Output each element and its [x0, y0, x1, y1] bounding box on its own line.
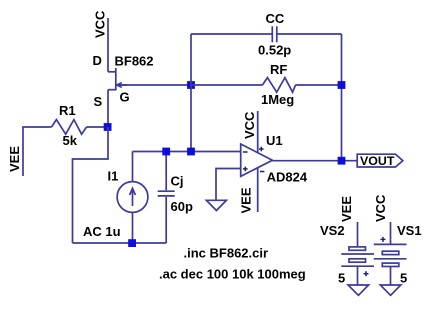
- wire bottom rail: [73, 242, 167, 244]
- node RF right junction: [338, 81, 346, 89]
- wire VS1 bottom: [390, 267, 392, 286]
- node I1 bottom junction: [128, 239, 136, 247]
- wire op-amp output: [272, 160, 357, 162]
- svg-text:VEE: VEE: [7, 146, 22, 172]
- svg-text:AC 1u: AC 1u: [83, 224, 121, 239]
- wire Cj top: [165, 152, 167, 191]
- svg-text:5: 5: [338, 270, 345, 285]
- wire top rail right: [277, 33, 342, 35]
- wire VS2 top: [357, 222, 359, 247]
- wire source node down-left to bottom rail: [73, 127, 109, 243]
- marker plus VS1: [381, 237, 386, 242]
- node output junction: [338, 157, 346, 165]
- svg-text:S: S: [94, 94, 103, 109]
- op-amp VEE power pin: [257, 168, 259, 212]
- current source I1: [117, 182, 148, 213]
- wire RF row left: [191, 84, 263, 86]
- capacitor CC: [272, 26, 277, 42]
- wire gate node down to mid rail: [190, 85, 192, 152]
- wire VEE stub: [23, 127, 52, 176]
- wire RF row right: [296, 84, 342, 86]
- svg-text:1Meg: 1Meg: [261, 92, 294, 107]
- wire VS1 top: [390, 222, 392, 244]
- voltage source VS1 (battery): [374, 244, 407, 266]
- ground (op-amp input): [206, 200, 226, 210]
- op-amp U1: [241, 144, 273, 176]
- net flag VOUT: [357, 154, 403, 167]
- capacitor Cj: [158, 191, 175, 196]
- wire gate to node: [117, 84, 191, 86]
- node gate junction: [187, 81, 195, 89]
- wire I1 bottom: [132, 212, 134, 243]
- svg-text:BF862: BF862: [115, 54, 154, 69]
- wire right rail: [341, 34, 343, 161]
- svg-text:VCC: VCC: [242, 111, 257, 139]
- marker plus (V+ pin): [259, 147, 264, 152]
- svg-text:Cj: Cj: [171, 174, 184, 189]
- voltage source VS2 (battery): [341, 247, 374, 266]
- svg-text:VEE: VEE: [239, 187, 254, 213]
- wire Cj bottom: [165, 197, 167, 243]
- marker minus (V- pin): [260, 171, 264, 173]
- wire VS2 bottom: [357, 266, 359, 285]
- wire R1 to source node: [87, 126, 109, 128]
- svg-text:VCC: VCC: [93, 10, 108, 38]
- svg-text:VCC: VCC: [373, 194, 388, 222]
- svg-text:G: G: [120, 89, 130, 104]
- svg-text:.ac dec 100 10k 100meg: .ac dec 100 10k 100meg: [159, 267, 306, 282]
- wire VCC to drain: [107, 18, 109, 72]
- ground (VS2): [348, 285, 369, 295]
- wire top rail left: [191, 33, 272, 35]
- svg-text:U1: U1: [266, 133, 283, 148]
- svg-text:60p: 60p: [171, 199, 193, 214]
- wire mid rail to op-amp input: [133, 151, 242, 153]
- svg-text:VS1: VS1: [397, 223, 422, 238]
- svg-text:0.52p: 0.52p: [258, 43, 291, 58]
- svg-text:5k: 5k: [63, 133, 78, 148]
- transistor Q1 BF862 (n-JFET): [108, 68, 127, 91]
- svg-text:CC: CC: [266, 11, 285, 26]
- svg-text:R1: R1: [59, 103, 76, 118]
- resistor R1: [52, 120, 87, 135]
- marker plus VS2: [364, 271, 369, 276]
- svg-text:AD824: AD824: [267, 170, 308, 185]
- wire source to junction: [107, 90, 109, 127]
- resistor RF: [263, 78, 296, 93]
- wire gate node up to top rail: [190, 34, 192, 85]
- svg-text:I1: I1: [108, 169, 119, 184]
- svg-text:.inc BF862.cir: .inc BF862.cir: [184, 246, 269, 261]
- ground (VS1): [380, 285, 401, 295]
- wire non-inverting input to ground: [216, 169, 241, 201]
- marker non-inverting input: [243, 167, 248, 172]
- svg-text:VS2: VS2: [320, 223, 345, 238]
- node mid rail junction: [187, 148, 195, 156]
- wire I1 top: [132, 152, 134, 182]
- svg-text:RF: RF: [270, 62, 287, 77]
- op-amp VCC power pin: [257, 111, 259, 152]
- svg-text:VOUT: VOUT: [360, 154, 395, 168]
- svg-text:D: D: [93, 53, 102, 68]
- svg-text:5: 5: [400, 270, 407, 285]
- svg-text:VEE: VEE: [339, 196, 354, 222]
- marker inverting input: [243, 151, 248, 153]
- node source junction: [104, 123, 112, 131]
- node Cj top junction: [162, 148, 170, 156]
